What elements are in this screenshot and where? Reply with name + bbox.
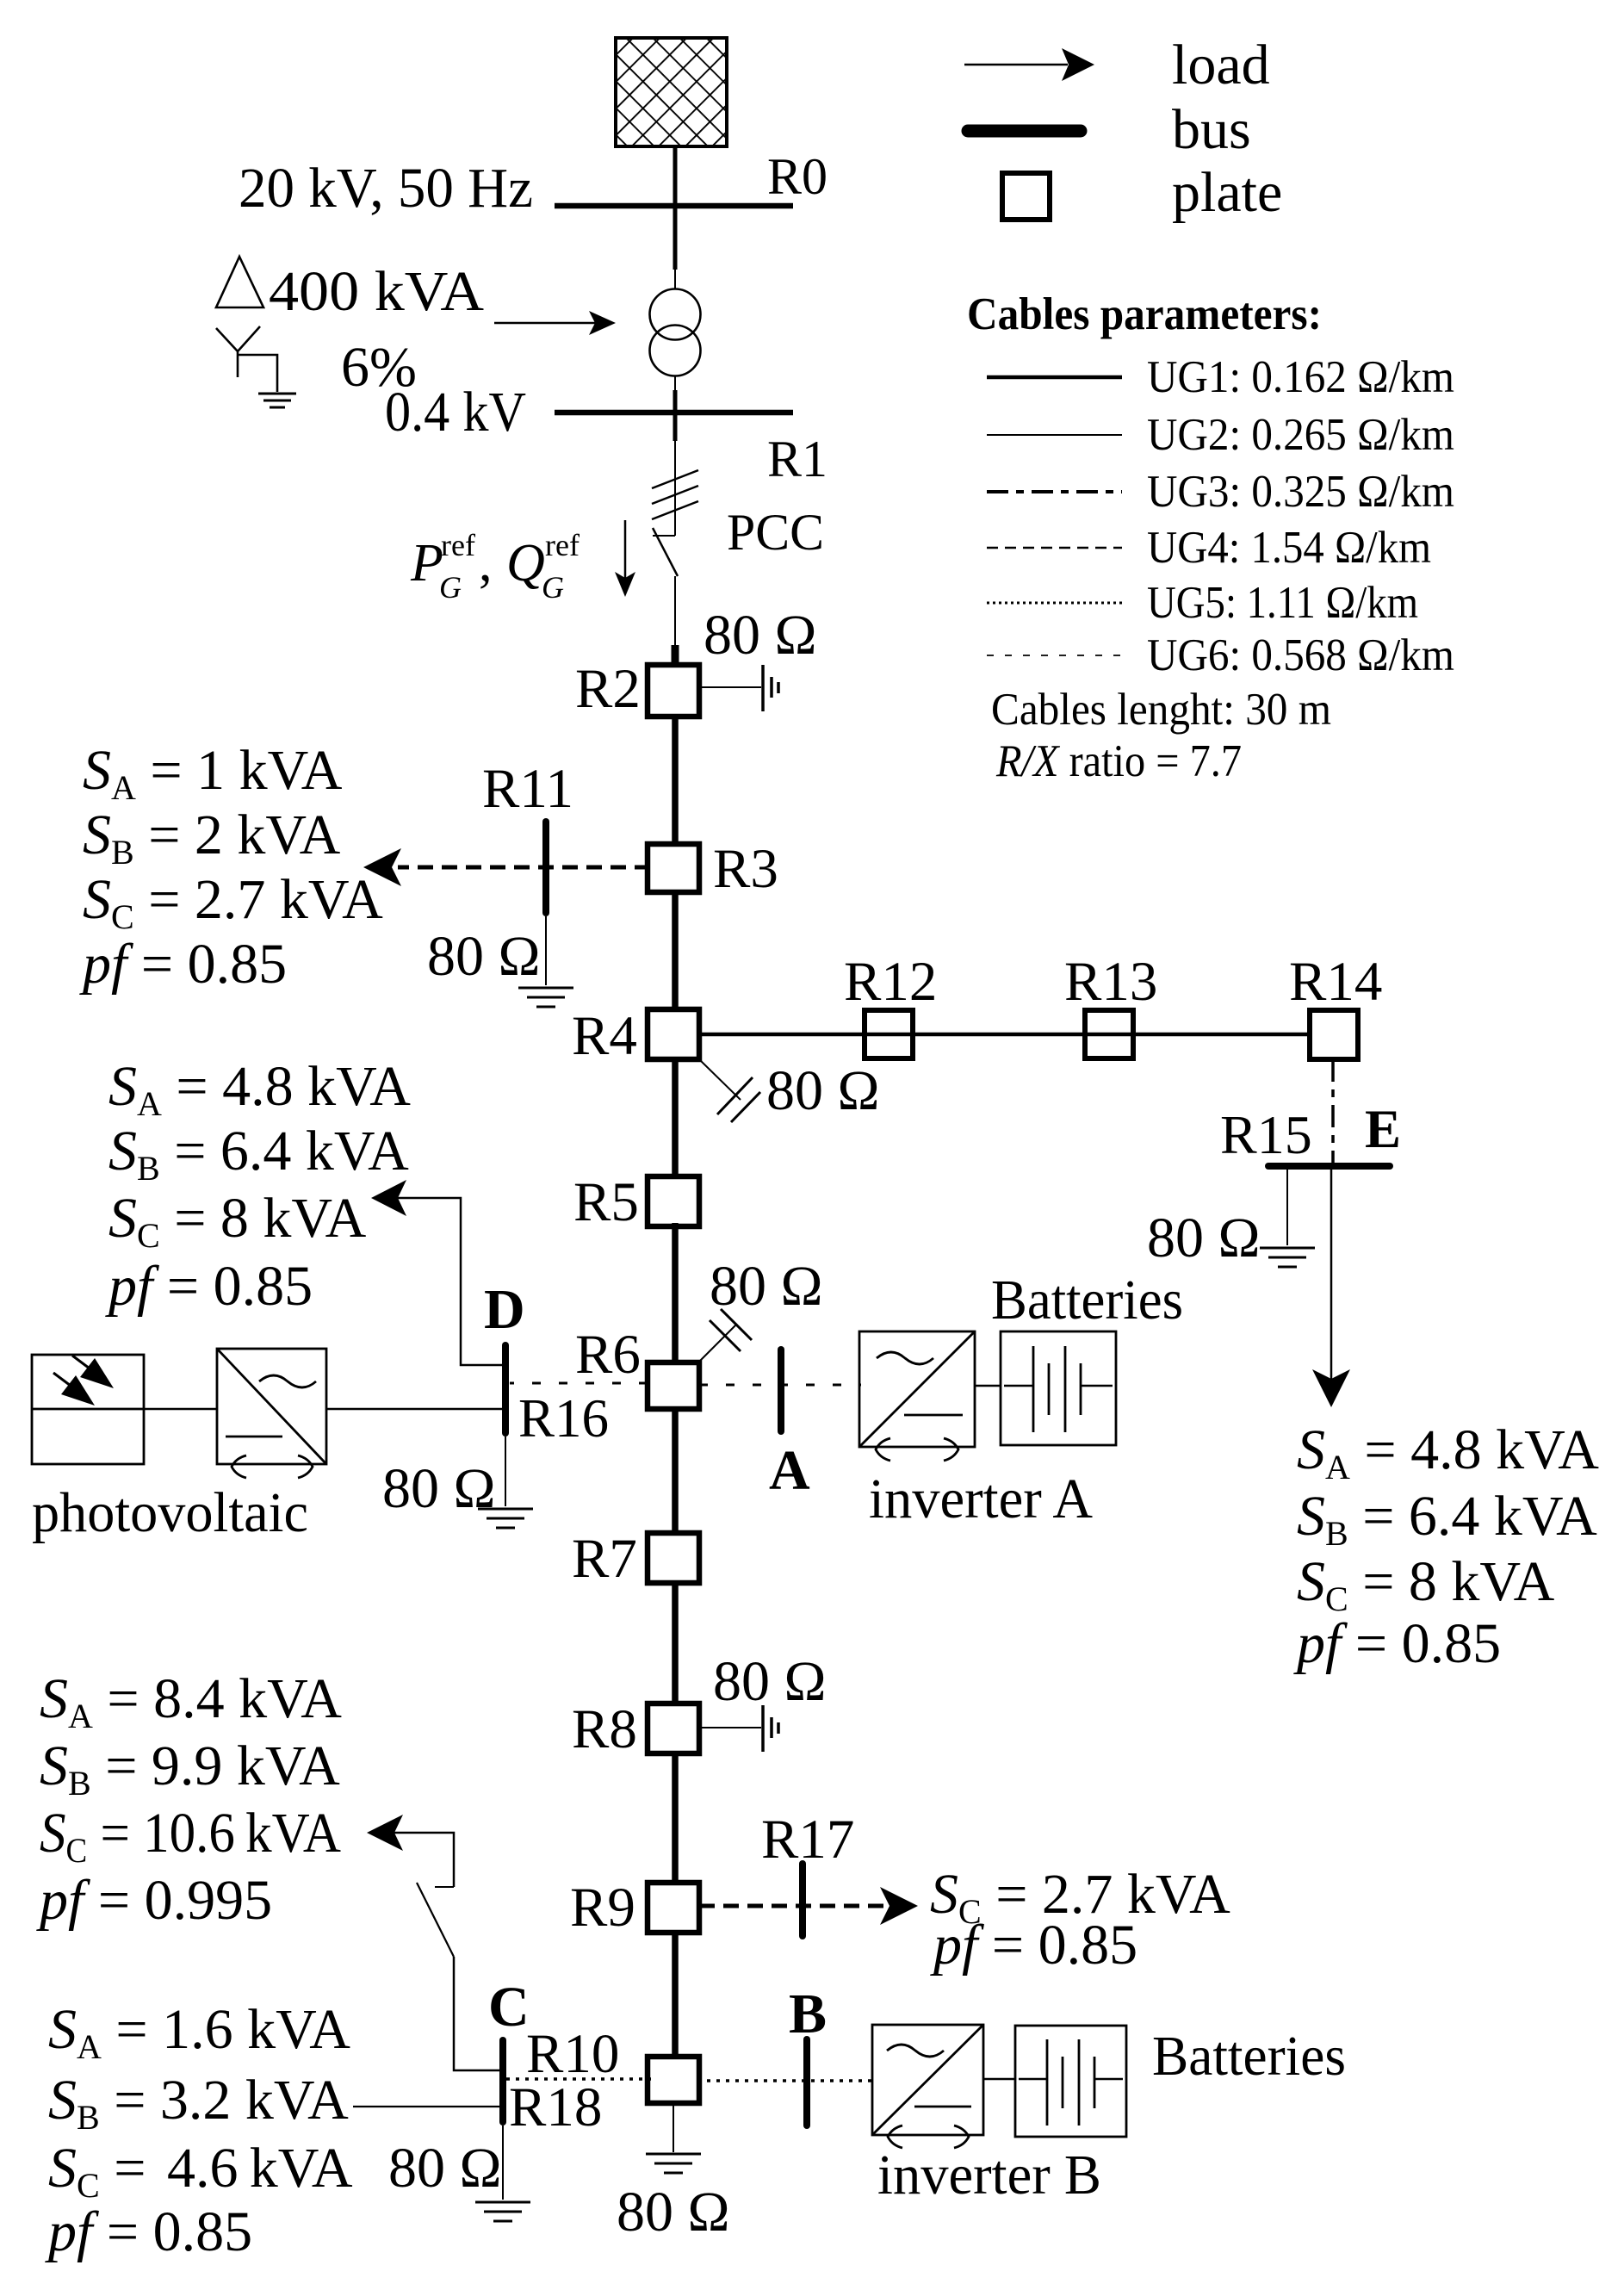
wire R9-R10 — [672, 1931, 679, 2058]
svg-text:R15: R15 — [1220, 1104, 1312, 1165]
bus A — [778, 1350, 784, 1431]
plate R13 — [1085, 1010, 1133, 1058]
bus R17 — [799, 1864, 806, 1936]
legend UG5 sample — [987, 602, 1122, 605]
svg-text:80 Ω: 80 Ω — [1147, 1207, 1261, 1269]
wye winding symbol with earthed neutral — [216, 326, 277, 392]
bus R11 — [542, 822, 549, 913]
svg-text:80 Ω: 80 Ω — [704, 604, 817, 667]
svg-text:UG2: 0.265 Ω/km: UG2: 0.265 Ω/km — [1147, 410, 1454, 460]
svg-text:80 Ω: 80 Ω — [617, 2181, 730, 2243]
ground below bus E — [1286, 1170, 1288, 1245]
bus R0 (20 kV) — [555, 203, 793, 209]
svg-text:R13: R13 — [1064, 951, 1157, 1013]
plate R2 — [648, 665, 699, 717]
load arrow up from bus D — [398, 1198, 502, 1365]
batteries B box — [1015, 2026, 1126, 2137]
svg-text:Batteries: Batteries — [991, 1269, 1183, 1331]
bus B — [803, 2039, 810, 2126]
svg-text:400 kVA: 400 kVA — [269, 260, 484, 323]
svg-text:R17: R17 — [761, 1809, 854, 1871]
svg-text:UG3: 0.325 Ω/km: UG3: 0.325 Ω/km — [1147, 467, 1454, 517]
bus E (R15) — [1268, 1163, 1390, 1170]
wire R2-R3 — [672, 715, 679, 847]
svg-text:R0: R0 — [767, 148, 827, 205]
wire panel to PV inverter — [144, 1408, 217, 1411]
svg-text:R2: R2 — [575, 658, 641, 720]
ground below bus D — [505, 1437, 506, 1506]
svg-text:PCC: PCC — [727, 504, 824, 561]
wire PV inverter to bus D — [326, 1408, 502, 1411]
plate R4 — [648, 1009, 699, 1059]
wire transformer to bus 0.4kV — [674, 375, 676, 390]
svg-text:ref: ref — [545, 528, 580, 562]
svg-text:R18: R18 — [509, 2076, 602, 2138]
svg-text:80 Ω: 80 Ω — [382, 1457, 496, 1520]
wire R0 to transformer — [673, 206, 678, 270]
arrow pointing to transformer — [494, 322, 599, 325]
battery symbol A — [1004, 1385, 1033, 1387]
svg-text:UG6: 0.568 Ω/km: UG6: 0.568 Ω/km — [1147, 630, 1454, 680]
svg-text:80 Ω: 80 Ω — [710, 1255, 823, 1318]
plate R10 — [648, 2057, 699, 2103]
PV inverter box — [217, 1349, 326, 1464]
legend load arrow — [964, 64, 1068, 66]
plate R14 — [1310, 1010, 1358, 1059]
svg-text:UG5: 1.11 Ω/km: UG5: 1.11 Ω/km — [1147, 578, 1418, 628]
svg-text:UG4: 1.54 Ω/km: UG4: 1.54 Ω/km — [1147, 523, 1431, 573]
earthing diagonal of R4 with slashes — [699, 1059, 741, 1100]
svg-text:B: B — [789, 1983, 827, 2045]
svg-text:D: D — [484, 1278, 525, 1341]
ground of wye neutral — [258, 394, 296, 407]
svg-text:R/X ratio = 7.7: R/X ratio = 7.7 — [995, 736, 1242, 786]
delta winding symbol — [216, 257, 263, 307]
bus D (R16) — [502, 1345, 509, 1433]
svg-text:80 Ω: 80 Ω — [713, 1650, 827, 1713]
svg-text:Q: Q — [506, 534, 545, 593]
wire R3-R4 — [672, 891, 679, 1012]
svg-text:G: G — [439, 570, 462, 605]
svg-text:R11: R11 — [482, 758, 573, 820]
svg-text:E: E — [1365, 1099, 1401, 1159]
svg-text:R9: R9 — [570, 1877, 635, 1939]
svg-text:R6: R6 — [575, 1324, 641, 1386]
svg-text:R14: R14 — [1289, 951, 1382, 1013]
switch PCC — [653, 535, 675, 537]
svg-text:Batteries: Batteries — [1152, 2025, 1346, 2088]
feeder R4 to R12 R13 R14 — [697, 1033, 1312, 1037]
svg-text:R8: R8 — [572, 1698, 637, 1760]
svg-text:Cables lenght: 30 m: Cables lenght: 30 m — [991, 685, 1331, 735]
transformer (two circles) — [650, 289, 701, 340]
svg-text:pf = 0.85: pf = 0.85 — [105, 1255, 313, 1318]
svg-text:80 Ω: 80 Ω — [388, 2137, 502, 2200]
dashed feeder R3 to R11 with load arrow — [398, 866, 650, 870]
arrow down P,Q — [624, 520, 627, 582]
wire inverter B to batteries B — [983, 2078, 1015, 2081]
svg-text:R4: R4 — [572, 1005, 637, 1067]
plate R12 — [865, 1010, 913, 1058]
earthing of R8 (rotated ground) — [699, 1727, 761, 1728]
svg-text:pf = 0.995: pf = 0.995 — [36, 1869, 272, 1932]
ground below R10 — [673, 2103, 674, 2152]
three-phase slash marks — [652, 470, 698, 519]
dashed feeder R9 to R17 with load arrow — [699, 1904, 885, 1908]
svg-text:R1: R1 — [767, 431, 827, 487]
legend UG1 sample — [987, 375, 1122, 380]
plate R3 — [648, 844, 699, 892]
svg-text:UG1: 0.162 Ω/km: UG1: 0.162 Ω/km — [1147, 352, 1454, 402]
wire inverter A to batteries A — [975, 1385, 1001, 1387]
wire R6-R7 — [672, 1407, 679, 1535]
wire grid to bus R0 — [673, 146, 678, 206]
svg-text:pf = 0.85: pf = 0.85 — [1293, 1612, 1501, 1675]
dotted feeder R10 to bus B and inverter B — [697, 2079, 872, 2082]
wire below 0.4kV bus — [673, 413, 678, 441]
legend UG4 sample — [987, 547, 1122, 549]
svg-text:Cables parameters:: Cables parameters: — [967, 289, 1322, 339]
svg-text:80 Ω: 80 Ω — [427, 925, 541, 988]
svg-text:plate: plate — [1172, 161, 1282, 224]
wire R4-R5 — [672, 1058, 679, 1178]
wire R5-R6 — [672, 1223, 679, 1364]
bus C (R18) — [499, 2040, 506, 2122]
load arrow with switch from bus C — [381, 1833, 454, 1887]
svg-text:R5: R5 — [573, 1171, 639, 1233]
svg-text:20 kV, 50 Hz: 20 kV, 50 Hz — [239, 157, 533, 220]
inverter B box — [872, 2025, 983, 2135]
dotted feeder bus C to R10 — [506, 2077, 651, 2081]
svg-text:R16: R16 — [518, 1388, 609, 1449]
dashed feeder R6 to bus D — [510, 1382, 648, 1385]
plate R8 — [648, 1704, 699, 1753]
svg-text:R12: R12 — [844, 951, 937, 1013]
external grid (crosshatched plate) — [616, 38, 727, 146]
svg-text:inverter B: inverter B — [877, 2144, 1101, 2206]
load arrow from bus E — [1330, 1170, 1333, 1388]
svg-text:R3: R3 — [713, 838, 778, 900]
svg-text:inverter A: inverter A — [869, 1468, 1093, 1530]
legend UG3 sample — [987, 490, 1122, 493]
svg-text:0.4 kV: 0.4 kV — [385, 381, 526, 444]
light arrows on panel — [72, 1356, 90, 1368]
legend plate symbol — [1002, 173, 1050, 220]
svg-text:ref: ref — [441, 528, 475, 562]
earthing diagonal of R6 with slashes — [699, 1324, 737, 1362]
bus 0.4 kV — [555, 410, 793, 416]
dash-dot drop R14 to bus E — [1331, 1059, 1335, 1164]
ground below bus C — [502, 2126, 504, 2200]
svg-text:G: G — [542, 570, 564, 605]
svg-text:C: C — [488, 1976, 530, 2039]
photovoltaic panel box — [32, 1355, 144, 1464]
plate R7 — [648, 1533, 699, 1583]
svg-text:photovoltaic: photovoltaic — [32, 1481, 308, 1544]
inverter A box — [859, 1331, 975, 1447]
wire R8-R9 — [672, 1752, 679, 1883]
wire R7-R8 — [672, 1581, 679, 1705]
svg-text:pf = 0.85: pf = 0.85 — [45, 2200, 252, 2263]
svg-text:bus: bus — [1172, 98, 1251, 161]
dashed feeder R6 to bus A — [699, 1384, 861, 1387]
svg-text:80 Ω: 80 Ω — [766, 1059, 880, 1122]
svg-text:pf = 0.85: pf = 0.85 — [930, 1914, 1137, 1977]
earthing of R2 (rotated ground) — [699, 686, 761, 688]
legend bus symbol — [968, 125, 1081, 138]
plate R9 — [648, 1883, 699, 1933]
plate R6 — [648, 1362, 699, 1409]
wire load into bus C — [353, 2106, 499, 2107]
battery symbol B — [1019, 2078, 1047, 2081]
svg-text:load: load — [1172, 34, 1270, 96]
svg-text:A: A — [769, 1439, 810, 1502]
svg-text:pf = 0.85: pf = 0.85 — [79, 933, 287, 996]
legend UG6 sample — [987, 655, 1122, 656]
batteries A box — [1001, 1331, 1116, 1445]
legend UG2 sample — [987, 434, 1122, 436]
svg-text:,: , — [479, 534, 493, 593]
ground below R11 — [545, 916, 547, 985]
svg-text:R7: R7 — [572, 1528, 637, 1590]
plate R5 — [648, 1176, 699, 1226]
